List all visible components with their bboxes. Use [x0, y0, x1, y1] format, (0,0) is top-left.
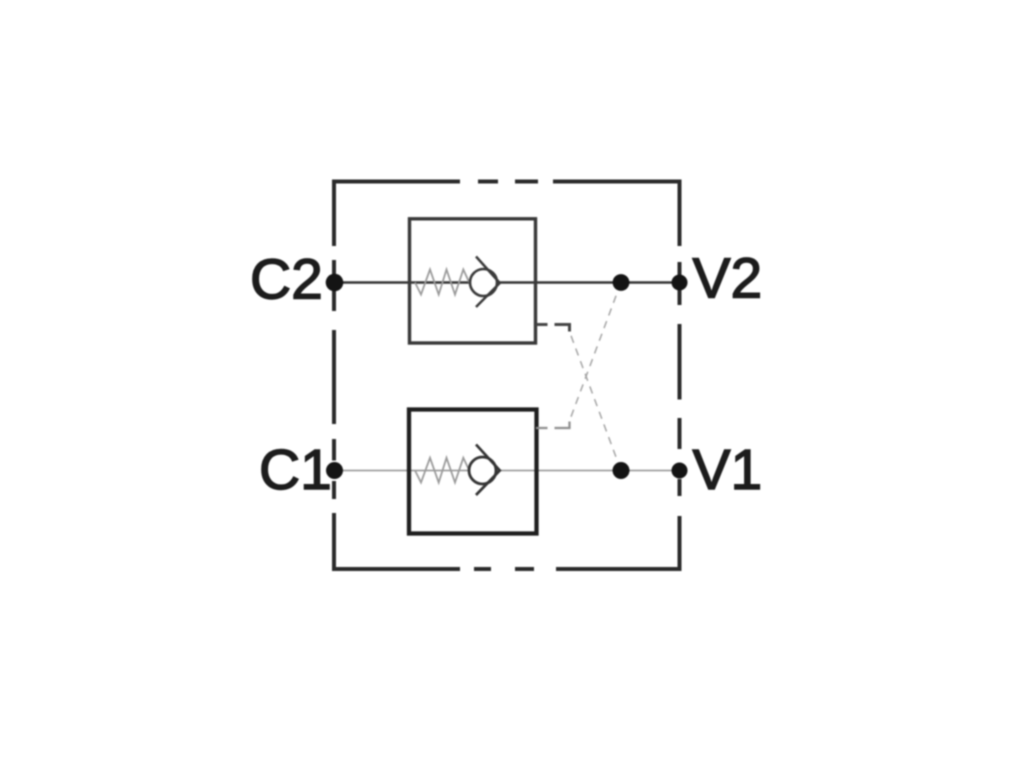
svg-text:V2: V2	[693, 247, 763, 311]
wire: C1 to V1 flow line	[334, 470, 680, 472]
node: port V1	[672, 463, 688, 479]
valve assembly boundary: top edge (dashed)	[332, 180, 682, 184]
seat (CV2)	[476, 257, 500, 308]
valve assembly boundary: right edge (dashed)	[678, 180, 682, 572]
node: pilot junction on C2-V2 line	[613, 274, 630, 291]
svg-text:C2: C2	[250, 248, 323, 312]
valve assembly boundary: bottom edge (dashed)	[332, 567, 682, 571]
pilot line CV2 to C1-V1 junction (diagonal dashed)	[570, 333, 621, 471]
ball (CV1)	[469, 457, 496, 484]
pilot line from CV1 (stub + elbow)	[536, 422, 570, 429]
seat (CV1)	[476, 445, 500, 496]
spring (CV2)	[415, 270, 470, 295]
spring (CV1)	[415, 458, 470, 483]
check valve CV2 enclosure (top box)	[410, 219, 536, 343]
svg-text:V1: V1	[693, 438, 763, 502]
pilot line CV1 to C2-V2 junction (diagonal dashed)	[570, 283, 621, 420]
check valve CV1 enclosure (bottom box)	[409, 410, 537, 534]
node: port C1	[326, 462, 343, 479]
node: port V2	[672, 275, 688, 291]
ball (CV2)	[470, 269, 497, 296]
wire: C2 to V2 flow line	[334, 281, 680, 284]
valve assembly boundary: left edge (dashed)	[332, 180, 336, 572]
svg-text:C1: C1	[259, 438, 332, 502]
node: pilot junction on C1-V1 line	[613, 462, 630, 479]
pilot line from CV2 (stub + elbow)	[536, 325, 570, 332]
node: port C2	[326, 274, 344, 292]
